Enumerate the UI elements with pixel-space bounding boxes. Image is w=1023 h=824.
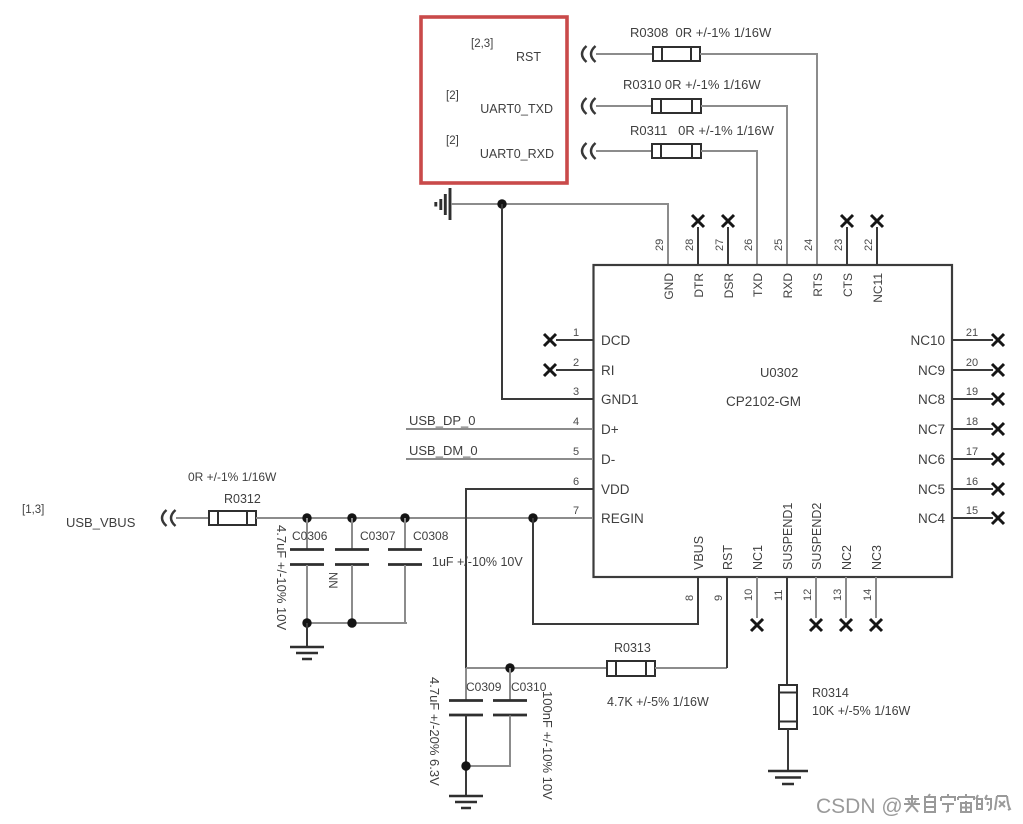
svg-text:CTS: CTS — [841, 273, 855, 297]
svg-text:R0314: R0314 — [812, 686, 849, 700]
svg-text:4.7uF +/-20% 6.3V: 4.7uF +/-20% 6.3V — [427, 677, 442, 786]
wire RST to R0308 — [596, 53, 653, 55]
svg-text:R0312: R0312 — [224, 492, 261, 506]
svg-text:CP2102-GM: CP2102-GM — [726, 394, 801, 409]
svg-text:RXD: RXD — [781, 273, 795, 299]
no-connect X pin 1 — [544, 334, 556, 346]
pin 27 DSR stub — [727, 227, 729, 265]
capacitor C0306 — [290, 518, 324, 623]
capacitor C0309 — [449, 668, 483, 795]
svg-text:DCD: DCD — [601, 333, 630, 348]
svg-text:2: 2 — [573, 357, 579, 369]
svg-text:D-: D- — [601, 452, 615, 467]
svg-text:7: 7 — [573, 505, 579, 517]
junction C0306 top — [302, 513, 311, 522]
svg-text:23: 23 — [833, 239, 845, 251]
no-connect X pin 18 — [992, 423, 1004, 435]
svg-text:18: 18 — [966, 416, 978, 428]
svg-text:14: 14 — [862, 589, 874, 601]
svg-text:R0308 0R +/-1% 1/16W: R0308 0R +/-1% 1/16W — [630, 25, 772, 40]
pin 18 NC7 stub — [952, 428, 993, 430]
junction C0310 top — [505, 663, 514, 672]
wire UART0_TXD to R0310 — [596, 105, 652, 107]
svg-text:17: 17 — [966, 446, 978, 458]
wire USB_VBUS to R0312 — [176, 517, 209, 519]
svg-text:1uF +/-10% 10V: 1uF +/-10% 10V — [432, 555, 523, 569]
wire pin11 SUSPEND1 down — [786, 577, 788, 685]
wire VBUS pin8 path — [533, 518, 698, 624]
no-connect X pin 16 — [992, 483, 1004, 495]
wire R0310 to pin25 — [701, 106, 787, 265]
no-connect X pin 20 — [992, 364, 1004, 376]
resistor R0314 — [779, 685, 797, 729]
svg-text:R0313: R0313 — [614, 641, 651, 655]
svg-text:NC4: NC4 — [918, 511, 945, 526]
svg-text:5: 5 — [573, 446, 579, 458]
wire pin9 RST down — [726, 577, 728, 668]
svg-text:REGIN: REGIN — [601, 511, 644, 526]
wire gnd to pin29 — [451, 204, 668, 265]
svg-text:C0307: C0307 — [360, 529, 396, 543]
op IC U0302 body — [594, 265, 953, 577]
svg-text:NN: NN — [326, 572, 338, 589]
wire gnd branch to GND1 pin3 — [502, 204, 593, 399]
ground under R0314 — [768, 771, 808, 784]
svg-text:C0306: C0306 — [292, 529, 328, 543]
svg-text:USB_DM_0: USB_DM_0 — [409, 443, 478, 458]
svg-text:NC6: NC6 — [918, 452, 945, 467]
svg-text:UART0_RXD: UART0_RXD — [480, 147, 554, 161]
svg-text:GND: GND — [662, 273, 676, 300]
wire gnd stem C0306 — [306, 623, 308, 646]
ground under C0309 — [449, 796, 483, 808]
junction top gnd branch — [497, 199, 506, 208]
svg-text:6: 6 — [573, 476, 579, 488]
ground under C0306 — [290, 647, 324, 659]
no-connect X pin 27 — [722, 215, 734, 227]
svg-text:26: 26 — [743, 239, 755, 251]
svg-text:9: 9 — [713, 595, 725, 601]
pin 1 DCD stub — [556, 339, 593, 341]
svg-text:20: 20 — [966, 357, 978, 369]
svg-text:DTR: DTR — [692, 273, 706, 298]
no-connect X pin 2 — [544, 364, 556, 376]
capacitor C0310 — [466, 668, 527, 766]
no-connect X pin 28 — [692, 215, 704, 227]
svg-text:CSDN @: CSDN @ — [816, 795, 903, 818]
resistor R0312 — [209, 511, 256, 525]
watermark hanzi 宇 — [941, 794, 955, 812]
svg-text:29: 29 — [654, 239, 666, 251]
svg-text:11: 11 — [773, 590, 785, 601]
svg-text:[2,3]: [2,3] — [471, 38, 493, 50]
wire lower rail — [466, 667, 607, 669]
pin 17 NC6 stub — [952, 458, 993, 460]
pin 15 NC4 stub — [952, 517, 993, 519]
pin 10 NC1 stub — [756, 577, 758, 618]
no-connect X pin 13 — [840, 619, 852, 631]
svg-text:VBUS: VBUS — [692, 536, 706, 570]
svg-text:TXD: TXD — [751, 273, 765, 297]
watermark hanzi 的 — [976, 795, 991, 810]
svg-text:GND1: GND1 — [601, 392, 639, 407]
port chevron USB_VBUS — [162, 510, 176, 526]
capacitor C0307 — [335, 518, 369, 623]
svg-text:10: 10 — [743, 589, 755, 601]
wire VBUS rail to REGIN — [256, 517, 593, 519]
pin 16 NC5 stub — [952, 488, 993, 490]
junction VBUS branch — [528, 513, 537, 522]
svg-text:DSR: DSR — [722, 273, 736, 299]
port chevron UART0_TXD — [582, 98, 596, 114]
svg-text:4.7K +/-5% 1/16W: 4.7K +/-5% 1/16W — [607, 695, 709, 709]
wire UART0_RXD to R0311 — [596, 150, 652, 152]
wire R0313 to pin9 RST — [655, 667, 727, 669]
svg-text:16: 16 — [966, 476, 978, 488]
junction C0308 top — [400, 513, 409, 522]
svg-text:NC10: NC10 — [910, 333, 945, 348]
junction C0307 bottom — [347, 618, 356, 627]
resistor R0313 — [607, 661, 655, 676]
no-connect X pin 22 — [871, 215, 883, 227]
svg-text:RST: RST — [516, 50, 541, 64]
svg-text:28: 28 — [684, 239, 696, 251]
pin 22 NC11 stub — [876, 227, 878, 265]
wire R0314 to ground — [787, 729, 789, 770]
no-connect X pin 23 — [841, 215, 853, 227]
svg-text:[2]: [2] — [446, 135, 459, 147]
svg-text:R0310 0R +/-1% 1/16W: R0310 0R +/-1% 1/16W — [623, 77, 761, 92]
no-connect X pin 10 — [751, 619, 763, 631]
pin 20 NC9 stub — [952, 369, 993, 371]
svg-text:C0309: C0309 — [466, 680, 502, 694]
svg-text:15: 15 — [966, 505, 978, 517]
pin 28 DTR stub — [697, 227, 699, 265]
resistor R0308 — [653, 47, 700, 61]
svg-text:27: 27 — [714, 239, 726, 251]
wire R0308 to pin24 — [700, 54, 817, 265]
svg-text:NC9: NC9 — [918, 363, 945, 378]
svg-text:13: 13 — [832, 589, 844, 601]
svg-text:NC1: NC1 — [751, 545, 765, 570]
pin 23 CTS stub — [846, 227, 848, 265]
svg-text:SUSPEND2: SUSPEND2 — [810, 503, 824, 570]
no-connect X pin 21 — [992, 334, 1004, 346]
capacitor C0308 — [388, 518, 422, 623]
ground (sideways, top left) — [436, 188, 450, 220]
svg-text:RTS: RTS — [811, 273, 825, 297]
svg-text:22: 22 — [863, 239, 875, 251]
pin 2 RI stub — [556, 369, 593, 371]
svg-text:4: 4 — [573, 416, 579, 428]
no-connect X pin 19 — [992, 393, 1004, 405]
svg-text:NC5: NC5 — [918, 482, 945, 497]
pin 12 SUSPEND2 stub — [815, 577, 817, 618]
no-connect X pin 14 — [870, 619, 882, 631]
wire USB_DM_0 to D- — [406, 458, 593, 460]
svg-text:21: 21 — [966, 327, 978, 339]
svg-text:UART0_TXD: UART0_TXD — [480, 102, 553, 116]
no-connect X pin 15 — [992, 512, 1004, 524]
svg-text:NC7: NC7 — [918, 422, 945, 437]
svg-text:VDD: VDD — [601, 482, 630, 497]
svg-text:12: 12 — [802, 589, 814, 601]
svg-text:10K +/-5% 1/16W: 10K +/-5% 1/16W — [812, 704, 911, 718]
watermark hanzi 自 — [925, 794, 935, 812]
watermark hanzi 来 — [904, 795, 920, 812]
svg-text:USB_DP_0: USB_DP_0 — [409, 413, 475, 428]
svg-text:3: 3 — [573, 386, 579, 398]
svg-text:R0311 0R +/-1% 1/16W: R0311 0R +/-1% 1/16W — [630, 123, 775, 138]
svg-text:USB_VBUS: USB_VBUS — [66, 515, 136, 530]
svg-text:24: 24 — [803, 239, 815, 251]
svg-text:0R +/-1% 1/16W: 0R +/-1% 1/16W — [188, 470, 277, 484]
port chevron UART0_RXD — [582, 143, 596, 159]
svg-text:NC8: NC8 — [918, 392, 945, 407]
svg-text:NC2: NC2 — [840, 545, 854, 570]
resistor R0310 — [652, 99, 701, 113]
pin 21 NC10 stub — [952, 339, 993, 341]
svg-text:25: 25 — [773, 239, 785, 251]
svg-text:100nF +/-10% 10V: 100nF +/-10% 10V — [540, 691, 555, 800]
wire R0311 to pin26 — [701, 151, 757, 265]
svg-text:NC11: NC11 — [871, 273, 885, 303]
svg-text:[2]: [2] — [446, 90, 459, 102]
svg-text:NC3: NC3 — [870, 545, 884, 570]
junction C0309 C0310 bottom — [461, 761, 470, 770]
pin 14 NC3 stub — [875, 577, 877, 618]
resistor R0311 — [652, 144, 701, 158]
no-connect X pin 17 — [992, 453, 1004, 465]
svg-text:1: 1 — [573, 327, 579, 339]
svg-text:RST: RST — [721, 545, 735, 570]
svg-text:U0302: U0302 — [760, 365, 798, 380]
no-connect X pin 12 — [810, 619, 822, 631]
svg-text:19: 19 — [966, 386, 978, 398]
junction C0307 top — [347, 513, 356, 522]
svg-text:4.7uF +/-10% 10V: 4.7uF +/-10% 10V — [274, 525, 289, 630]
watermark hanzi 宙 — [958, 794, 974, 812]
watermark hanzi 风 — [995, 796, 1010, 810]
wire VDD branch — [466, 489, 593, 668]
svg-text:SUSPEND1: SUSPEND1 — [781, 503, 795, 570]
svg-text:8: 8 — [684, 595, 696, 601]
net callout highlight box — [421, 17, 567, 183]
pin 19 NC8 stub — [952, 398, 993, 400]
pin 13 NC2 stub — [845, 577, 847, 618]
svg-text:RI: RI — [601, 363, 615, 378]
port chevron RST — [582, 46, 596, 62]
svg-text:[1,3]: [1,3] — [22, 504, 44, 516]
svg-text:C0308: C0308 — [413, 529, 449, 543]
wire USB_DP_0 to D+ — [406, 428, 593, 430]
junction C0306 bottom — [302, 618, 311, 627]
svg-text:D+: D+ — [601, 422, 619, 437]
wire cap bottom rail — [307, 622, 407, 624]
